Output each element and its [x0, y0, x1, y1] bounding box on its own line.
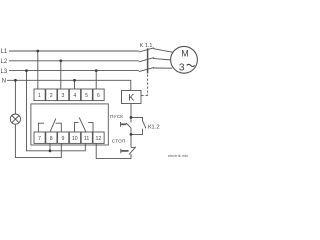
- wire L1 bus line: [9, 50, 139, 52]
- relay contact 2 NC seat pin 10: [75, 122, 79, 132]
- aux contact K1.2 blade: [143, 121, 146, 129]
- wire N bus line with corner down to coil K: [7, 80, 131, 90]
- svg-text:СТОП: СТОП: [112, 139, 126, 145]
- pushbutton PUSK actuator: [121, 123, 127, 125]
- wire K1.1 to motor phase 2: [153, 58, 171, 60]
- svg-text:10: 10: [72, 136, 78, 142]
- node N to terminal 4: [73, 79, 76, 82]
- pushbutton STOP actuator: [121, 150, 129, 152]
- node A coil branch: [130, 116, 133, 119]
- svg-text:9: 9: [62, 136, 65, 142]
- node N to lamp: [14, 79, 17, 82]
- svg-text:L2: L2: [1, 59, 8, 65]
- svg-text:3: 3: [62, 93, 65, 99]
- svg-text:7: 7: [38, 136, 41, 142]
- svg-text:K: K: [128, 92, 134, 102]
- svg-text:L1: L1: [1, 49, 8, 55]
- svg-text:5: 5: [85, 93, 88, 99]
- terminal numbers 1-6: [38, 93, 100, 99]
- wire drop L3 tap to bottom rail: [27, 71, 86, 151]
- wire K1.1 to motor phase 1: [153, 49, 172, 53]
- node terminal 8 junction: [49, 149, 52, 152]
- svg-text:N: N: [2, 79, 6, 85]
- aux contact K1.2 branch: [131, 117, 143, 120]
- svg-text:2: 2: [50, 93, 53, 99]
- wire drop L1 to terminal 1: [37, 51, 39, 89]
- svg-text:ПУСК: ПУСК: [110, 114, 123, 120]
- svg-text:3: 3: [179, 62, 185, 74]
- contactor contacts K1.1 blades: [139, 48, 154, 52]
- node L1 to terminal 1: [36, 50, 39, 53]
- coil K box: [122, 91, 142, 104]
- node L3 tap: [25, 69, 28, 72]
- wire drop L2 to terminal 3: [60, 61, 62, 89]
- relay U1 body: [31, 104, 108, 145]
- wire drop L3 to terminal 6: [95, 71, 97, 89]
- node B coil branch return: [130, 133, 133, 136]
- pushbutton PUSK blade: [126, 123, 131, 128]
- svg-text:8: 8: [50, 136, 53, 142]
- svg-text:M: M: [181, 48, 189, 58]
- svg-text:K 1.1: K 1.1: [140, 43, 153, 49]
- wire terminal 12 to STOP bottom: [96, 143, 131, 158]
- relay terminal boxes bottom row 7-12: [34, 132, 104, 143]
- pushbutton STOP blade: [129, 147, 136, 155]
- wire coil K to node A: [130, 104, 132, 123]
- relay contact 1 NO seat pin 9: [56, 123, 62, 132]
- svg-text:electrik.info: electrik.info: [168, 154, 188, 158]
- svg-text:К1.2: К1.2: [148, 125, 160, 131]
- wire lamp branch N to terminal 9: [14, 80, 16, 114]
- wire terminal 8 drop to bottom rail: [49, 143, 51, 150]
- node L2 to terminal 3: [59, 59, 62, 62]
- lamp HL: [10, 114, 20, 124]
- terminal numbers 7-12: [38, 136, 101, 142]
- wire K1.1 to motor phase 3: [153, 67, 172, 69]
- motor M1 circle: [171, 46, 198, 73]
- svg-text:6: 6: [97, 93, 100, 99]
- wire L3 bus line: [9, 70, 139, 72]
- svg-text:L3: L3: [1, 69, 8, 75]
- contactor K1.1 linkage bar: [147, 48, 149, 73]
- svg-text:4: 4: [73, 93, 76, 99]
- svg-text:11: 11: [84, 136, 89, 142]
- wire lamp bottom to terminal 9: [15, 124, 61, 157]
- svg-text:12: 12: [96, 136, 102, 142]
- wire PUSK to node B and STOP: [130, 128, 132, 147]
- contactor K1.1 linkage dashed to coil: [147, 75, 149, 96]
- relay contact 1 blade pin 8: [50, 119, 56, 132]
- wire drop N to terminal 4: [74, 80, 76, 89]
- svg-text:1: 1: [38, 93, 41, 99]
- pushbutton STOP seat tick: [131, 146, 135, 148]
- node L3 to terminal 6: [95, 69, 98, 72]
- wire L2 bus line: [9, 60, 139, 62]
- relay contact 2 blade pin 11: [79, 117, 86, 132]
- relay terminal boxes top row 1-6: [34, 89, 104, 101]
- aux contact K1.2 return to node B: [131, 129, 143, 135]
- relay contact 2 NO seat pin 12: [88, 122, 93, 132]
- relay contact 1 NC seat pin 7: [38, 123, 44, 132]
